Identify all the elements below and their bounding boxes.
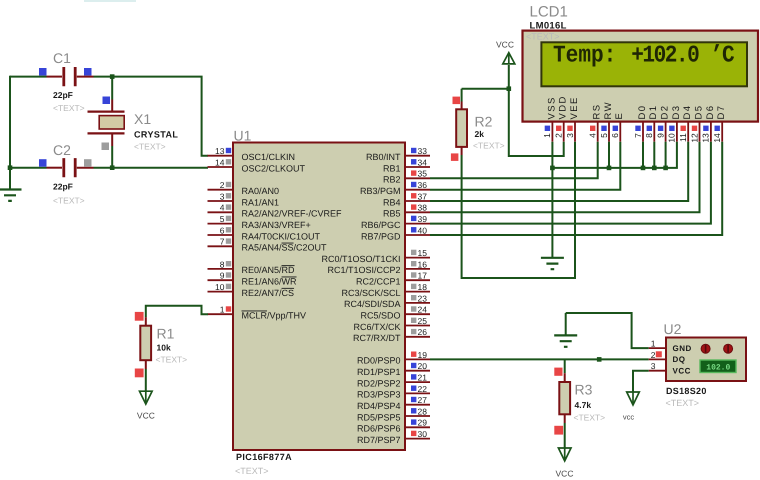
svg-text:2: 2 xyxy=(554,133,564,138)
svg-text:RC4/SDI/SDA: RC4/SDI/SDA xyxy=(344,299,401,309)
wire C2 left lead net xyxy=(10,167,47,169)
U1 pin name RA2/AN2/VREF-/CVREF xyxy=(242,209,343,219)
svg-text:PIC16F877A: PIC16F877A xyxy=(236,452,292,462)
label X1 xyxy=(134,111,151,127)
LCD1 pin name RW xyxy=(603,101,614,119)
wire U2 VCC to power xyxy=(633,371,649,392)
junction left rail / C2 node xyxy=(8,165,13,170)
pin-state marker U1 pin 5 marker xyxy=(226,216,231,221)
svg-text:30: 30 xyxy=(418,429,428,439)
svg-text:R2: R2 xyxy=(475,114,493,130)
svg-text:18: 18 xyxy=(418,282,428,292)
U1 pin number 38 xyxy=(418,203,428,213)
U1 pin number 33 xyxy=(418,146,428,156)
U1 pin name MCLR/Vpp/THV xyxy=(242,311,307,321)
svg-text:D5: D5 xyxy=(693,105,704,120)
pin-state marker U1 pin 1 marker xyxy=(226,306,231,311)
pin-state marker X1 bottom terminal marker xyxy=(102,143,110,151)
U1 pin number 30 xyxy=(418,429,428,439)
svg-text:C2: C2 xyxy=(53,142,71,158)
value LCD1 LM016L xyxy=(530,21,567,32)
pin-state marker U1 pin 10 marker xyxy=(226,284,231,289)
svg-text:22pF: 22pF xyxy=(53,182,73,192)
U1 pin 24 stub xyxy=(405,313,430,315)
LCD1 pin number 7 xyxy=(633,133,643,138)
resistor R1 body xyxy=(140,326,151,361)
U1 pin number 28 xyxy=(418,406,428,416)
svg-text:DS18S20: DS18S20 xyxy=(666,386,707,396)
svg-text:RD2/PSP2: RD2/PSP2 xyxy=(357,378,401,388)
svg-text:D0: D0 xyxy=(637,105,648,120)
U1 pin name RD0/PSP0 xyxy=(357,356,401,366)
LCD1 pin number 2 xyxy=(554,133,564,138)
LCD1 pin 9 stub xyxy=(665,122,667,142)
svg-text:VCC: VCC xyxy=(137,411,155,421)
svg-text:11: 11 xyxy=(678,133,688,142)
pin-state marker U1 pin 40 marker xyxy=(411,227,416,232)
pin-state marker C1 left terminal marker xyxy=(39,68,47,76)
pin-state marker U1 pin 33 marker xyxy=(411,148,416,153)
junction D2 rail node xyxy=(663,166,668,171)
svg-text:24: 24 xyxy=(418,305,428,315)
U1 pin name RD1/PSP1 xyxy=(357,367,401,377)
svg-text:LCD1: LCD1 xyxy=(530,4,568,21)
pin-state marker U1 pin 18 marker xyxy=(411,284,416,289)
svg-text:<TEXT>: <TEXT> xyxy=(53,103,85,113)
pin-state marker LCD1 pin 8 marker xyxy=(647,126,652,131)
pin-state marker U1 pin 3 marker xyxy=(226,193,231,198)
wire D1 to ground rail xyxy=(653,142,655,168)
U1 pin 10 stub xyxy=(208,291,234,293)
svg-text:12: 12 xyxy=(689,133,699,143)
LCD1 pin name D7 xyxy=(716,105,727,120)
label C1 xyxy=(53,50,71,66)
LCD1 pin name D5 xyxy=(693,105,704,120)
label R3 xyxy=(575,382,593,398)
svg-text:1: 1 xyxy=(651,339,656,349)
wire X1 bottom net xyxy=(111,146,113,168)
U1 pin 19 stub xyxy=(405,358,430,360)
power terminal R3 VCC arrow down xyxy=(558,448,571,461)
svg-text:CRYSTAL: CRYSTAL xyxy=(134,130,178,140)
U1 pin number 18 xyxy=(418,282,428,292)
label U2 xyxy=(664,321,682,337)
wire RD0 DQ line to U2 xyxy=(430,358,649,360)
power label vcc U2 xyxy=(623,413,635,422)
pin-state marker LCD1 pin 11 marker xyxy=(681,126,686,131)
LCD1 screen xyxy=(541,42,747,86)
pin-state marker LCD1 pin 13 marker xyxy=(703,126,708,131)
junction D0 rail node xyxy=(641,166,646,171)
wire VCC to LCD VDD xyxy=(509,89,564,156)
U1 pin number 2 xyxy=(220,180,225,190)
U1 pin name RA5/AN4/SS/C2OUT xyxy=(242,243,328,253)
C2 text placeholder xyxy=(53,196,85,206)
svg-text:34: 34 xyxy=(418,157,428,167)
svg-text:RA5/AN4/SS/C2OUT: RA5/AN4/SS/C2OUT xyxy=(242,243,328,253)
svg-text:DQ: DQ xyxy=(673,355,686,364)
junction RW rail node xyxy=(607,166,612,171)
svg-text:1: 1 xyxy=(220,305,225,315)
value U1 PIC16F877A xyxy=(236,452,292,462)
svg-text:vcc: vcc xyxy=(623,413,635,422)
power label VCC top xyxy=(496,40,514,50)
U1 pin name RD4/PSP4 xyxy=(357,401,401,411)
U2 pin name GND xyxy=(673,344,692,353)
svg-text:’C: ’C xyxy=(710,43,734,70)
svg-text:RD3/PSP3: RD3/PSP3 xyxy=(357,390,401,400)
U1 pin name RD6/PSP6 xyxy=(357,424,401,434)
wire D2 to ground rail xyxy=(665,142,667,168)
svg-text:RC3/SCK/SCL: RC3/SCK/SCL xyxy=(341,288,400,298)
svg-text:8: 8 xyxy=(220,259,225,269)
U1 pin name RC0/T1OSO/T1CKI xyxy=(321,254,400,264)
U1 pin 16 stub xyxy=(405,268,430,270)
capacitor C1 xyxy=(64,67,75,86)
svg-text:10k: 10k xyxy=(157,343,171,353)
LCD1 pin 12 stub xyxy=(699,122,701,142)
svg-text:1: 1 xyxy=(542,133,552,138)
R1 text placeholder xyxy=(156,355,188,365)
svg-text:3: 3 xyxy=(651,361,656,371)
U1 pin 18 stub xyxy=(405,291,430,293)
pin-state marker U1 pin 37 marker xyxy=(411,193,416,198)
U2 trim button right xyxy=(724,344,733,353)
svg-text:RC2/CCP1: RC2/CCP1 xyxy=(356,277,401,287)
svg-text:39: 39 xyxy=(418,214,428,224)
pin-state marker U1 pin 25 marker xyxy=(411,318,416,323)
wire R1 bottom to VCC xyxy=(145,369,147,391)
U2 pin name VCC xyxy=(673,367,691,376)
LCD1 pin name RS xyxy=(592,104,603,120)
svg-text:VCC: VCC xyxy=(556,468,574,478)
pin-state marker U1 pin 24 marker xyxy=(411,306,416,311)
LCD1 pin 3 stub xyxy=(574,122,576,142)
pin-state marker LCD1 pin 4 marker xyxy=(590,126,595,131)
svg-text:RE0/AN5/RD: RE0/AN5/RD xyxy=(242,265,296,275)
svg-text:R1: R1 xyxy=(157,325,175,341)
svg-text:<TEXT>: <TEXT> xyxy=(473,140,505,150)
U1 pin name RC5/SDO xyxy=(360,311,400,321)
wire node OSC2: C2 to U1 pin14 xyxy=(94,167,209,169)
svg-text:33: 33 xyxy=(418,146,428,156)
wire R3 bottom to VCC xyxy=(564,423,566,448)
LCD1 pin name D3 xyxy=(671,105,682,120)
U1 pin number 4 xyxy=(220,203,225,213)
svg-text:RW: RW xyxy=(603,101,614,119)
pin-state marker R3 top terminal marker xyxy=(554,368,562,376)
wire R2 bottom to LCD VEE xyxy=(462,142,575,278)
pin-state marker LCD1 pin 2 marker xyxy=(556,126,561,131)
junction D1 rail node xyxy=(652,166,657,171)
wire RW to ground rail xyxy=(608,142,610,168)
wire C1 right pin xyxy=(77,76,94,78)
label C2 xyxy=(53,142,71,158)
LCD1 pin number 9 xyxy=(655,133,665,138)
svg-text:D2: D2 xyxy=(660,105,671,120)
svg-text:5: 5 xyxy=(599,133,609,138)
LCD1 LM016L body xyxy=(523,31,759,122)
U1 pin number 7 xyxy=(220,237,225,247)
U1 pin name RD2/PSP2 xyxy=(357,378,401,388)
U2 pin number 1 xyxy=(651,339,656,349)
svg-text:U2: U2 xyxy=(664,321,682,337)
U1 pin name RA3/AN3/VREF+ xyxy=(242,220,311,230)
U1 pin number 26 xyxy=(418,327,428,337)
svg-text:14: 14 xyxy=(215,157,225,167)
wire C1 left pin xyxy=(47,76,63,78)
svg-text:38: 38 xyxy=(418,203,428,213)
wire X1 bottom pin xyxy=(111,134,113,146)
svg-text:RD1/PSP1: RD1/PSP1 xyxy=(357,367,401,377)
value C2 22pF xyxy=(53,182,73,192)
microcontroller U1 PIC16F877A body xyxy=(233,143,405,451)
U1 pin 13 stub xyxy=(208,155,234,157)
U1 pin name RB3/PGM xyxy=(360,186,401,196)
U1 text placeholder xyxy=(235,466,269,476)
svg-text:D1: D1 xyxy=(648,105,659,120)
U1 pin 20 stub xyxy=(405,370,430,372)
power label VCC R1 xyxy=(137,411,155,421)
pin-state marker LCD1 pin 5 marker xyxy=(601,126,606,131)
wire LCD VSS down to ground xyxy=(551,142,553,258)
LCD1 pin number 3 xyxy=(565,133,575,138)
pin-state marker U1 pin 28 marker xyxy=(411,408,416,413)
wire node OSC1: C1 to U1 pin13 xyxy=(94,77,209,156)
LCD1 pin 13 stub xyxy=(710,122,712,142)
svg-text:RB7/PGD: RB7/PGD xyxy=(361,231,401,241)
wire RB2 to LCD RS xyxy=(430,142,598,179)
wire RB6 to LCD D6 xyxy=(430,142,711,224)
pin-state marker U1 pin 35 marker xyxy=(411,170,416,175)
C1 text placeholder xyxy=(53,103,85,113)
U1 pin number 14 xyxy=(215,157,225,167)
label R1 xyxy=(157,325,175,341)
svg-text:19: 19 xyxy=(418,350,428,360)
pin-state marker U1 pin 17 marker xyxy=(411,272,416,277)
wire U2 ground stem xyxy=(565,313,567,335)
value C1 22pF xyxy=(53,90,73,100)
U1 pin 25 stub xyxy=(405,325,430,327)
svg-text:40: 40 xyxy=(418,225,428,235)
svg-text:U1: U1 xyxy=(234,128,252,144)
svg-text:GND: GND xyxy=(673,344,692,353)
svg-text:15: 15 xyxy=(418,248,428,258)
LCD1 pin 14 stub xyxy=(721,122,723,142)
svg-text:RD4/PSP4: RD4/PSP4 xyxy=(357,401,401,411)
pin-state marker R1 top terminal marker xyxy=(135,312,144,321)
pin-state marker U1 pin 34 marker xyxy=(411,159,416,164)
U1 pin 8 stub xyxy=(208,268,234,270)
pin-state marker U1 pin 7 marker xyxy=(226,238,231,243)
temperature sensor U2 DS18S20 body xyxy=(666,338,746,382)
svg-text:4.7k: 4.7k xyxy=(575,400,592,410)
svg-text:2k: 2k xyxy=(475,129,485,139)
U1 pin 35 stub xyxy=(405,177,430,179)
svg-text:17: 17 xyxy=(418,271,428,281)
U1 pin name RE2/AN7/CS xyxy=(242,288,295,298)
svg-text:14: 14 xyxy=(712,133,722,143)
label R2 xyxy=(475,114,493,130)
LCD1 pin name D0 xyxy=(637,105,648,120)
svg-text:RC0/T1OSO/T1CKI: RC0/T1OSO/T1CKI xyxy=(321,254,400,264)
svg-text:9: 9 xyxy=(655,133,665,138)
svg-text:<TEXT>: <TEXT> xyxy=(53,196,85,206)
power terminal VCC arrow up xyxy=(503,53,515,64)
svg-text:RC6/TX/CK: RC6/TX/CK xyxy=(353,322,400,332)
value R2 2k xyxy=(475,129,485,139)
svg-text:102.0: 102.0 xyxy=(706,364,730,373)
LCD1 pin number 1 xyxy=(542,133,552,138)
wire C1 left lead net xyxy=(10,76,47,78)
wire X1 top net xyxy=(111,77,113,100)
svg-text:D4: D4 xyxy=(682,105,693,120)
wire VCC stem xyxy=(508,65,510,89)
LCD1 pin name VSS xyxy=(546,96,557,119)
pin-state marker U1 pin 14 marker xyxy=(226,159,231,164)
U1 pin number 3 xyxy=(220,191,225,201)
svg-text:D3: D3 xyxy=(671,105,682,120)
U1 pin name RC4/SDI/SDA xyxy=(344,299,401,309)
U1 pin name RB4 xyxy=(383,197,401,207)
ground left ground xyxy=(0,190,22,201)
svg-text:26: 26 xyxy=(418,327,428,337)
U2 pin 3 stub xyxy=(649,370,666,372)
svg-text:23: 23 xyxy=(418,293,428,303)
pin-state marker U1 pin 2 marker xyxy=(226,182,231,187)
svg-text:RD7/PSP7: RD7/PSP7 xyxy=(357,435,401,445)
svg-text:<TEXT>: <TEXT> xyxy=(156,355,188,365)
pin-state marker LCD1 pin 1 marker xyxy=(545,126,550,131)
wire R1 bottom pin xyxy=(145,360,147,369)
pin-state marker R2 top terminal marker xyxy=(453,97,461,105)
wire D0 to ground rail xyxy=(642,142,644,168)
LCD1 pin name VEE xyxy=(569,96,580,119)
LCD1 pin number 6 xyxy=(610,133,620,138)
wire ground to U2 GND xyxy=(566,313,649,348)
pin-state marker C1 right terminal marker xyxy=(84,68,92,76)
svg-text:RC5/SDO: RC5/SDO xyxy=(360,311,400,321)
LCD1 pin 8 stub xyxy=(653,122,655,142)
pin-state marker U1 pin 9 marker xyxy=(226,272,231,277)
svg-text:RE2/AN7/CS: RE2/AN7/CS xyxy=(242,288,295,298)
value R1 10k xyxy=(157,343,171,353)
pin-state marker LCD1 pin 9 marker xyxy=(658,126,663,131)
U1 pin 9 stub xyxy=(208,279,234,281)
power label VCC R3 xyxy=(556,468,574,478)
svg-text:RB2: RB2 xyxy=(383,175,401,185)
U1 pin name OSC2/CLKOUT xyxy=(242,163,306,173)
U1 pin name RD3/PSP3 xyxy=(357,390,401,400)
U1 pin 33 stub xyxy=(405,155,430,157)
pin-state marker C2 right terminal marker xyxy=(84,159,92,167)
LCD1 pin 1 stub xyxy=(551,122,553,142)
svg-text:RB4: RB4 xyxy=(383,197,401,207)
svg-text:16: 16 xyxy=(418,259,428,269)
U1 pin 15 stub xyxy=(405,257,430,259)
wire RB7 to LCD D7 xyxy=(430,142,722,235)
svg-text:RB1: RB1 xyxy=(383,163,401,173)
pin-state marker LCD1 pin 14 marker xyxy=(715,126,720,131)
svg-text:35: 35 xyxy=(418,169,428,179)
junction DQ node xyxy=(597,357,602,362)
U1 pin 27 stub xyxy=(405,404,430,406)
U2 trim button left xyxy=(701,344,710,353)
LCD1 pin number 11 xyxy=(678,133,688,142)
U1 pin 22 stub xyxy=(405,392,430,394)
pin-state marker U1 pin 13 marker xyxy=(226,148,231,153)
U1 pin name RA1/AN1 xyxy=(242,197,280,207)
svg-text:4: 4 xyxy=(588,133,598,138)
LCD1 pin 10 stub xyxy=(676,122,678,142)
LCD text Temp: +102.0 deg C xyxy=(553,43,734,70)
svg-text:RA2/AN2/VREF-/CVREF: RA2/AN2/VREF-/CVREF xyxy=(242,209,343,219)
U1 pin number 40 xyxy=(418,225,428,235)
U2 text placeholder xyxy=(666,398,700,408)
svg-text:RA4/T0CKI/C1OUT: RA4/T0CKI/C1OUT xyxy=(242,231,321,241)
LCD1 pin name D1 xyxy=(648,105,659,120)
LCD1 pin 2 stub xyxy=(563,122,565,142)
svg-text:25: 25 xyxy=(418,316,428,326)
LCD1 pin name D4 xyxy=(682,105,693,120)
pin-state marker U1 pin 8 marker xyxy=(226,261,231,266)
svg-text:D7: D7 xyxy=(716,105,727,120)
U1 pin name RC1/T1OSI/CCP2 xyxy=(327,265,400,275)
U1 pin name RE0/AN5/RD xyxy=(242,265,296,275)
svg-text:28: 28 xyxy=(418,406,428,416)
svg-text:RS: RS xyxy=(592,104,603,120)
LCD1 pin name E xyxy=(614,112,625,120)
svg-text:13: 13 xyxy=(215,146,225,156)
U1 pin 28 stub xyxy=(405,415,430,417)
pin-state marker C2 left terminal marker xyxy=(39,159,47,167)
screen-edge artifact xyxy=(84,0,136,2)
wire X1 top pin xyxy=(111,100,113,111)
pin-state marker U1 pin 27 marker xyxy=(411,397,416,402)
svg-text:E: E xyxy=(614,112,625,120)
svg-text:RE1/AN6/WR: RE1/AN6/WR xyxy=(242,277,298,287)
U1 pin name RE1/AN6/WR xyxy=(242,277,298,287)
U1 pin 7 stub xyxy=(208,245,234,247)
U1 pin name RC6/TX/CK xyxy=(353,322,400,332)
svg-text:36: 36 xyxy=(418,180,428,190)
U2 pin 1 stub xyxy=(649,347,666,349)
wire ground rail to D3 xyxy=(552,142,677,168)
pin-state marker U2 pin 2 marker xyxy=(656,351,662,357)
value X1 CRYSTAL xyxy=(134,130,178,140)
wire R2 top pin xyxy=(461,102,463,110)
wire R3 top net xyxy=(564,359,566,373)
U1 pin name RD5/PSP5 xyxy=(357,412,401,422)
U1 pin name RB2 xyxy=(383,175,401,185)
svg-text:20: 20 xyxy=(418,361,428,371)
svg-text:VCC: VCC xyxy=(673,367,691,376)
pin-state marker R1 bottom terminal marker xyxy=(135,369,144,378)
wire left rail to ground xyxy=(9,76,11,190)
svg-text:RD5/PSP5: RD5/PSP5 xyxy=(357,412,401,422)
svg-text:RC1/T1OSI/CCP2: RC1/T1OSI/CCP2 xyxy=(327,265,400,275)
svg-text:<TEXT>: <TEXT> xyxy=(235,466,269,476)
U1 pin name RB1 xyxy=(383,163,401,173)
junction C1/X1 node xyxy=(110,74,115,79)
LCD1 pin number 10 xyxy=(667,133,677,143)
svg-text:VSS: VSS xyxy=(546,96,557,119)
U1 pin name RA4/T0CKI/C1OUT xyxy=(242,231,321,241)
U1 pin 34 stub xyxy=(405,166,430,168)
wire C2 left pin xyxy=(47,167,63,169)
pin-state marker U1 pin 36 marker xyxy=(411,182,416,187)
U1 pin 26 stub xyxy=(405,336,430,338)
